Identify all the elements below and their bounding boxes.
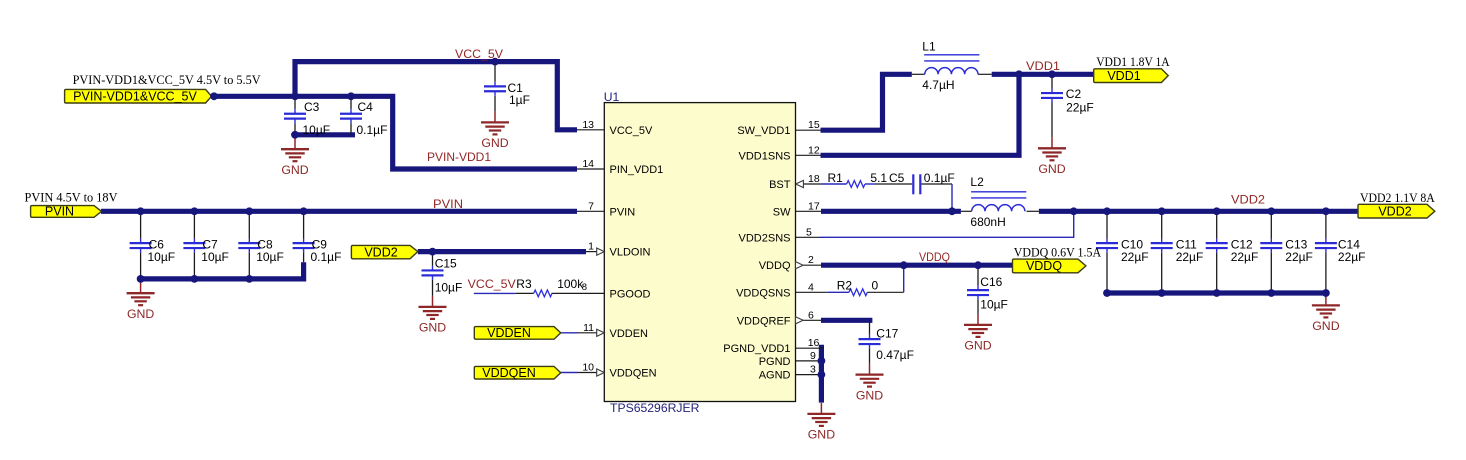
ground below C14 <box>1312 294 1340 333</box>
net BST R1 C5 wiring <box>804 184 952 211</box>
svg-text:PVIN: PVIN <box>45 205 74 219</box>
node tag tip PVIN-VDD1 <box>210 92 218 100</box>
pin stub 5 <box>796 236 821 238</box>
node C16 top <box>974 261 982 269</box>
wire VDD2 rail <box>1039 209 1358 214</box>
svg-text:VDD2: VDD2 <box>1378 204 1411 218</box>
node C9 top <box>300 207 308 215</box>
svg-text:R2: R2 <box>837 278 853 292</box>
svg-text:U1: U1 <box>604 90 620 104</box>
pin stub 7 <box>577 210 604 212</box>
capacitor C13 <box>1260 211 1282 293</box>
node C14 bottom gnd <box>1322 289 1330 297</box>
node C12 bottom <box>1213 289 1221 297</box>
svg-text:17: 17 <box>808 200 820 212</box>
svg-text:BST: BST <box>769 179 791 191</box>
ground below C3 <box>281 138 309 177</box>
svg-text:0.1µF: 0.1µF <box>311 250 342 264</box>
svg-text:5.1: 5.1 <box>870 171 887 185</box>
svg-text:12: 12 <box>808 144 820 156</box>
svg-text:PGOOD: PGOOD <box>610 288 651 300</box>
node C8 top <box>245 207 253 215</box>
wire VDDQREF pin 6 <box>821 318 872 323</box>
capacitor C5 <box>913 174 920 194</box>
ground below C16 <box>964 314 992 353</box>
tag VDD2 right <box>1358 204 1435 218</box>
svg-text:C2: C2 <box>1066 87 1082 101</box>
node BST riser on SW <box>948 207 956 215</box>
capacitor C9 <box>293 211 315 262</box>
svg-text:VDDQ: VDDQ <box>1026 259 1062 273</box>
wire VDD2 to VLDOIN <box>418 249 586 254</box>
pin stub 17 <box>796 210 822 212</box>
svg-text:680nH: 680nH <box>970 215 1005 229</box>
svg-text:13: 13 <box>582 119 594 131</box>
wire SW_VDD1 pin 15 to L1 <box>821 74 912 130</box>
capacitor C1 <box>484 62 506 112</box>
capacitor C3 <box>284 96 306 135</box>
svg-text:VDD1: VDD1 <box>1107 69 1140 83</box>
svg-text:VCC_5V: VCC_5V <box>610 125 653 137</box>
capacitor C7 <box>183 211 205 279</box>
tag VDDQ <box>1013 259 1086 273</box>
node C4 top <box>347 92 355 100</box>
svg-text:VDD2 1.1V 8A: VDD2 1.1V 8A <box>1360 190 1435 205</box>
svg-text:3: 3 <box>810 364 816 376</box>
pin stub 2 <box>803 264 821 266</box>
svg-text:TPS65296RJER: TPS65296RJER <box>610 401 700 415</box>
node C13 top <box>1267 207 1275 215</box>
capacitor C16 <box>967 265 989 314</box>
svg-text:VDD1: VDD1 <box>1026 59 1060 73</box>
tag VDDEN <box>474 327 560 340</box>
node C7 top <box>191 207 199 215</box>
svg-text:PVIN-VDD1&VCC_5V: PVIN-VDD1&VCC_5V <box>73 90 197 104</box>
svg-text:11: 11 <box>583 322 594 334</box>
svg-text:PGND: PGND <box>759 356 791 368</box>
svg-text:VDDEN: VDDEN <box>610 328 649 340</box>
node C11 top <box>1158 207 1166 215</box>
svg-text:16: 16 <box>808 337 820 349</box>
capacitor C4 <box>340 96 362 135</box>
svg-text:PIN_VDD1: PIN_VDD1 <box>610 164 664 176</box>
net VDD2SNS pin 5 wiring <box>820 211 1074 237</box>
svg-text:PVIN-VDD1&VCC_5V 4.5V to 5.5V: PVIN-VDD1&VCC_5V 4.5V to 5.5V <box>73 72 262 87</box>
capacitor C8 <box>238 211 260 279</box>
wire PGND bar pins 16 9 3 <box>819 345 824 403</box>
svg-text:22µF: 22µF <box>1285 250 1313 264</box>
tag VDD2 left <box>351 245 417 258</box>
svg-text:VDDQ 0.6V 1.5A: VDDQ 0.6V 1.5A <box>1014 244 1102 259</box>
node C10 top <box>1103 207 1111 215</box>
wire VDD1 node <box>992 72 1094 77</box>
pin stub 12 <box>796 154 821 156</box>
resistor R2 <box>849 289 867 296</box>
capacitor C11 <box>1151 211 1173 293</box>
node VDD2SNS riser <box>1070 207 1078 215</box>
capacitor C14 <box>1315 211 1337 293</box>
svg-text:VDD1 1.8V 1A: VDD1 1.8V 1A <box>1096 54 1170 69</box>
svg-text:10: 10 <box>582 362 594 374</box>
svg-text:PGND_VDD1: PGND_VDD1 <box>723 343 790 355</box>
svg-text:VDD2: VDD2 <box>1231 193 1265 207</box>
svg-text:VLDOIN: VLDOIN <box>610 247 651 259</box>
pin stub 3 <box>796 374 825 376</box>
svg-text:PVIN-VDD1: PVIN-VDD1 <box>427 150 491 164</box>
capacitor C2 <box>1041 74 1063 137</box>
pin stub 14 <box>577 168 604 170</box>
svg-text:10µF: 10µF <box>256 250 284 264</box>
svg-text:VDDEN: VDDEN <box>487 326 531 340</box>
inductor L2 <box>961 192 1039 212</box>
svg-text:0.1µF: 0.1µF <box>357 123 388 137</box>
pin stub 15 <box>796 129 821 131</box>
svg-text:7: 7 <box>588 200 594 212</box>
svg-text:0.47µF: 0.47µF <box>876 348 914 362</box>
wire VDDQ pin 2 to tag <box>821 263 1013 268</box>
node C10 bottom <box>1103 289 1111 297</box>
ground below C6 <box>127 282 155 321</box>
svg-text:AGND: AGND <box>759 370 791 382</box>
svg-text:PVIN: PVIN <box>610 206 636 218</box>
pin arrow VDDQEN <box>597 369 605 376</box>
node VDD1SNS riser <box>1015 70 1023 78</box>
svg-text:6: 6 <box>808 309 814 321</box>
node PGND pin 9 <box>818 357 826 365</box>
svg-text:C15: C15 <box>435 257 457 271</box>
svg-text:SW_VDD1: SW_VDD1 <box>737 125 790 137</box>
node C12 top <box>1213 207 1221 215</box>
svg-text:PVIN 4.5V to 18V: PVIN 4.5V to 18V <box>25 190 119 205</box>
svg-text:R3: R3 <box>516 277 532 291</box>
node C6 top <box>137 207 145 215</box>
pin arrow VDDQREF <box>796 317 804 324</box>
svg-text:C16: C16 <box>980 275 1002 289</box>
svg-text:VDDQ: VDDQ <box>759 260 791 272</box>
pin stub 6 <box>803 319 821 321</box>
svg-text:L2: L2 <box>970 175 984 189</box>
node C7 bottom <box>191 275 199 283</box>
pin arrow VDDQ <box>796 262 804 269</box>
svg-text:18: 18 <box>808 173 820 185</box>
node C6 bottom <box>137 275 145 283</box>
pin stub 9 <box>796 360 825 362</box>
node C14 top <box>1322 207 1330 215</box>
node C11 bottom <box>1158 289 1166 297</box>
svg-text:9: 9 <box>810 350 816 362</box>
svg-text:14: 14 <box>582 158 594 170</box>
op-amp U1 IC body TPS65296RJER <box>604 103 795 402</box>
pin stub 1 <box>586 251 597 253</box>
svg-text:SW: SW <box>773 206 791 218</box>
svg-text:C17: C17 <box>876 327 898 341</box>
tag PVIN <box>31 206 102 218</box>
wire SW pin 17 to L2 <box>821 209 961 214</box>
wire VCC_5V branch up and over to pin 13 <box>295 62 577 130</box>
svg-text:10µF: 10µF <box>303 123 331 137</box>
svg-text:100k: 100k <box>557 277 584 291</box>
node AGND pin 3 <box>818 371 826 379</box>
wire VDD1SNS pin 12 riser <box>821 74 1020 155</box>
svg-text:22µF: 22µF <box>1121 250 1149 264</box>
svg-text:10µF: 10µF <box>201 250 229 264</box>
ground below C15 <box>419 296 447 335</box>
svg-text:0: 0 <box>872 278 879 292</box>
pin stub 11 <box>578 332 597 334</box>
svg-text:VDDQEN: VDDQEN <box>482 366 535 380</box>
svg-text:VDDQEN: VDDQEN <box>610 368 657 380</box>
ground below IC AGND <box>807 403 835 442</box>
node C13 bottom <box>1267 289 1275 297</box>
wire C10-C14 ground rail <box>1104 290 1326 295</box>
svg-text:1µF: 1µF <box>509 93 530 107</box>
pin arrow VDDEN <box>597 329 605 336</box>
svg-text:VDD2: VDD2 <box>364 245 397 259</box>
pin arrow BST <box>796 180 804 187</box>
wire C3/C4 ground tie bar <box>295 132 355 137</box>
wire net PVIN-VDD1&VCC_5V horizontal to corner down to PIN_VDD1 <box>212 96 578 169</box>
svg-text:5: 5 <box>806 226 812 238</box>
svg-text:1: 1 <box>588 241 594 253</box>
svg-text:4.7µH: 4.7µH <box>922 78 954 92</box>
pin stub 4 <box>796 291 828 293</box>
ground below C17 <box>856 364 884 403</box>
node C15 top <box>429 248 437 256</box>
node C2 top <box>1048 70 1056 78</box>
wire C6-C9 ground rail <box>141 262 304 279</box>
ground below C1 <box>481 111 509 150</box>
capacitor C17 <box>859 320 881 363</box>
capacitor C6 <box>130 211 152 279</box>
capacitor C12 <box>1206 211 1228 293</box>
svg-text:4: 4 <box>808 281 814 293</box>
pin stub 10 blue <box>561 372 578 374</box>
svg-text:22µF: 22µF <box>1338 250 1366 264</box>
wire PVIN rail <box>101 209 577 214</box>
tag VDD1 <box>1094 69 1169 83</box>
svg-text:10µF: 10µF <box>148 250 176 264</box>
resistor R1 <box>847 181 865 188</box>
net PGOOD R3 wiring <box>474 292 605 294</box>
svg-text:C5: C5 <box>889 171 905 185</box>
svg-text:R1: R1 <box>828 171 844 185</box>
resistor R3 <box>534 290 552 297</box>
svg-text:22µF: 22µF <box>1066 101 1094 115</box>
pin stub 13 <box>577 129 604 131</box>
svg-text:10µF: 10µF <box>435 281 463 295</box>
pin stub 16 <box>796 347 825 349</box>
svg-text:VCC_5V: VCC_5V <box>468 277 516 291</box>
svg-text:10µF: 10µF <box>980 298 1008 312</box>
net VDDQSNS R2 wiring <box>827 265 904 292</box>
node C3 bottom gnd <box>291 131 299 139</box>
tag PVIN-VDD1&VCC_5V <box>65 89 212 103</box>
svg-text:VDD1SNS: VDD1SNS <box>739 150 791 162</box>
node C3 top <box>291 92 299 100</box>
inductor L1 <box>912 55 992 75</box>
tag VDDQEN <box>474 366 560 379</box>
svg-text:0.1µF: 0.1µF <box>924 171 955 185</box>
node C8 bottom <box>245 275 253 283</box>
node C1 top <box>491 58 499 66</box>
capacitor C15 <box>422 252 444 296</box>
svg-text:L1: L1 <box>922 39 936 53</box>
svg-text:22µF: 22µF <box>1231 250 1259 264</box>
pin stub 10 <box>578 372 597 374</box>
ground below C2 <box>1038 137 1066 176</box>
svg-text:15: 15 <box>808 119 820 131</box>
svg-text:22µF: 22µF <box>1176 250 1204 264</box>
svg-text:VDD2SNS: VDD2SNS <box>739 232 791 244</box>
svg-text:VDDQSNS: VDDQSNS <box>736 287 790 299</box>
pin stub 11 blue <box>561 332 578 334</box>
node R2 riser on VDDQ <box>900 261 908 269</box>
svg-text:C4: C4 <box>358 100 374 114</box>
svg-text:PVIN: PVIN <box>433 197 463 211</box>
pin arrow VLDOIN <box>597 248 605 255</box>
capacitor C10 <box>1096 211 1118 293</box>
svg-text:VDDQREF: VDDQREF <box>737 315 791 327</box>
svg-text:VDDQ: VDDQ <box>919 250 950 264</box>
svg-text:C3: C3 <box>304 100 320 114</box>
svg-text:8: 8 <box>582 282 587 293</box>
svg-text:2: 2 <box>808 254 814 266</box>
